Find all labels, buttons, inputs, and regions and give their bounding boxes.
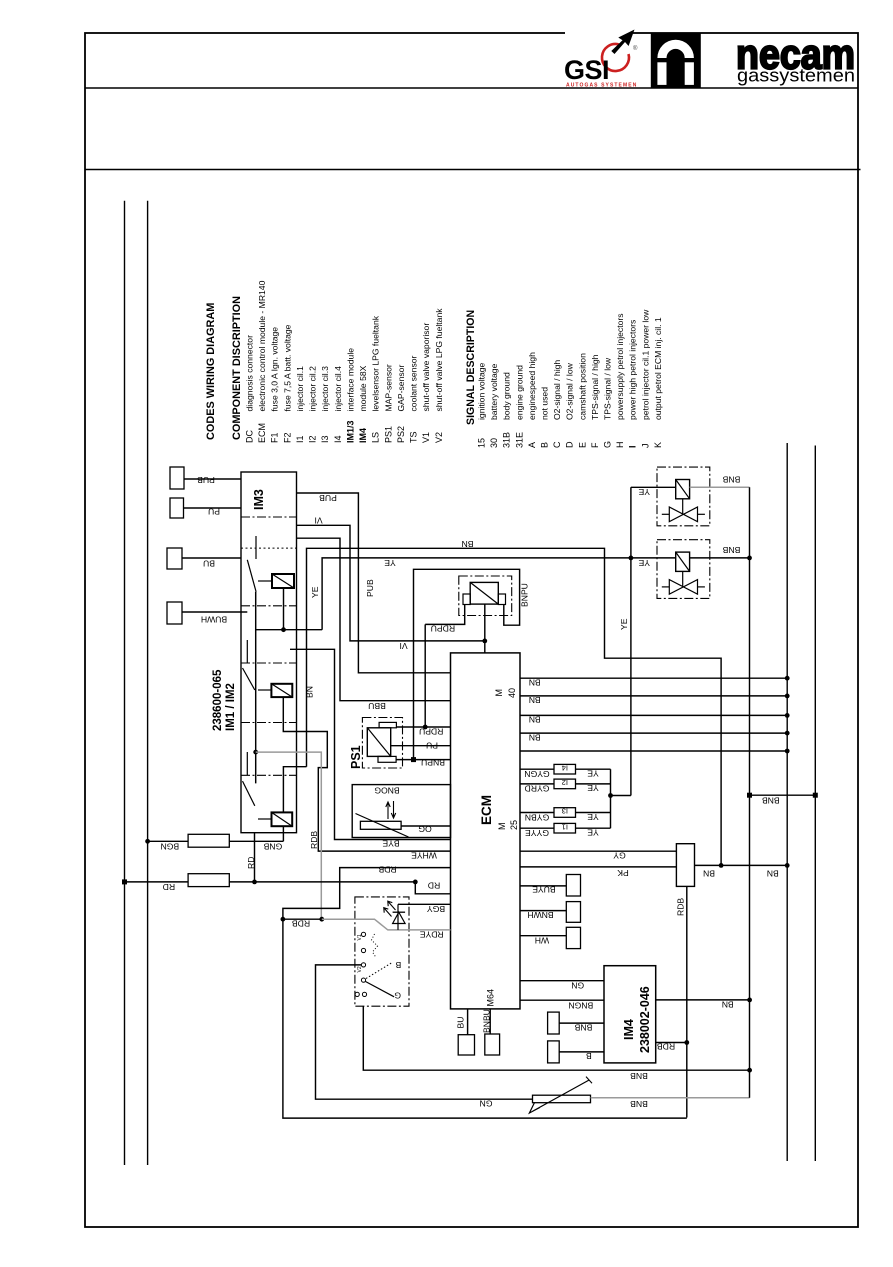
svg-text:BUYE: BUYE [532,885,556,895]
svg-text:TPS-signal / high: TPS-signal / high [590,354,600,420]
svg-text:GYRD: GYRD [525,784,550,794]
wire YE I4 [576,768,611,770]
svg-text:not used: not used [540,387,550,420]
svg-text:C: C [552,441,562,448]
junction RD branch [252,880,257,885]
svg-text:238600-065: 238600-065 [212,669,224,731]
svg-text:M64: M64 [486,989,496,1007]
svg-text:COMPONENT DISCRIPTION: COMPONENT DISCRIPTION [231,296,243,440]
svg-text:31E: 31E [514,432,524,448]
GSI logo black arrow [611,30,634,55]
svg-text:RD: RD [246,857,256,869]
svg-text:I2: I2 [562,778,568,787]
svg-text:MAP-sensor: MAP-sensor [383,364,393,411]
svg-text:module 58X: module 58X [358,365,368,411]
svg-text:VI: VI [399,641,407,651]
junction BN/DC 2 [785,863,790,868]
svg-text:injector cil.3: injector cil.3 [320,366,330,412]
svg-text:interface module: interface module [345,348,355,412]
sensor PS1 dashed box [362,718,402,769]
valve bowtie [669,507,697,522]
wire YE I1 [576,827,611,829]
PS1 top tab [379,722,396,727]
wire RDB IM4 [656,1042,687,1044]
box BNBU [485,1034,500,1055]
svg-text:®: ® [633,45,638,52]
svg-text:petrol injector cil.1 power lo: petrol injector cil.1 power low [640,309,650,420]
wire RDB to switch unit [283,918,322,920]
svg-text:BNPU: BNPU [421,758,445,768]
junction rail/BGN [145,839,150,844]
wire BNB cross to rail [750,794,816,796]
wire BNB V2 [690,557,750,559]
svg-text:RDYE: RDYE [420,930,444,940]
svg-text:PUB: PUB [365,579,375,597]
svg-text:M: M [494,689,504,697]
svg-text:CODES WIRING DIAGRAM: CODES WIRING DIAGRAM [205,303,217,440]
wire BUYE [520,885,566,887]
svg-text:H: H [615,442,625,449]
ECM electronic control module box [451,653,521,1009]
box BU [458,1035,474,1055]
svg-text:I: I [628,445,638,448]
svg-text:DC: DC [245,430,255,443]
injector I1 wire from ECM [520,827,554,829]
svg-text:IM1/3: IM1/3 [345,420,355,443]
level sensor LS body [533,1095,591,1103]
svg-text:GY: GY [613,851,626,861]
wire GY ECM to DC [520,850,676,852]
LS arrow [529,1080,589,1113]
wire YE node horizontal [256,629,322,631]
svg-text:PUB: PUB [319,493,337,503]
svg-text:GN: GN [571,981,584,991]
svg-text:I4: I4 [562,763,568,772]
fuse F2 body [188,874,229,887]
svg-text:BNGN: BNGN [568,1001,593,1011]
svg-text:fuse 3,0 A Ign. voltage: fuse 3,0 A Ign. voltage [270,327,280,412]
junction coil1/YE node [281,627,286,632]
sensor TS box [352,785,450,838]
wire BNBU ECM bottom [489,1009,491,1034]
svg-text:E: E [577,442,587,448]
wire coil3 bottom to fuse wire [282,826,284,841]
svg-text:I4: I4 [333,435,343,443]
valve coil [676,552,690,571]
svg-text:power high petrol injectors: power high petrol injectors [628,320,638,420]
connector box BU [167,548,182,569]
svg-text:shut-off valve vaporisor: shut-off valve vaporisor [421,323,431,412]
junction PS2/VI [482,639,487,644]
svg-text:fuse 7,5 A batt. voltage: fuse 7,5 A batt. voltage [282,324,292,411]
svg-text:25: 25 [509,820,519,830]
svg-text:GYBN: GYBN [525,812,549,822]
svg-text:BNPU: BNPU [520,583,530,607]
left rail 30 battery [124,201,126,1165]
wire BNPU loop around PS2 [414,569,520,759]
svg-text:ECM: ECM [257,423,267,443]
svg-text:SIGNAL DESCRIPTION: SIGNAL DESCRIPTION [465,310,477,425]
junction BNB cross a [747,793,752,798]
svg-text:BNOG: BNOG [374,786,400,796]
svg-text:LS: LS [371,432,381,443]
relay IM2 coil [271,684,292,697]
wire PUB to IM3 [184,478,241,480]
wire grey RDB/RDYE through unit [322,919,451,930]
svg-text:YE: YE [587,812,599,822]
svg-text:ECM: ECM [479,795,494,825]
wire WH [520,935,566,937]
connector box PU [170,498,184,518]
svg-text:BNBU: BNBU [482,1009,492,1033]
svg-text:OG: OG [418,824,432,834]
relay IM1 contact [255,536,257,559]
svg-text:injector cil.2: injector cil.2 [308,366,318,412]
svg-text:B: B [586,1051,592,1061]
svg-text:YE: YE [587,769,599,779]
valve stem [682,499,684,515]
junction RDPU [423,725,428,730]
necam arch logo white half-ring [657,40,694,58]
svg-text:diagnosis connector: diagnosis connector [245,335,255,412]
wire BU ECM bottom [467,1009,469,1035]
svg-text:F: F [590,442,600,448]
junction RD jog [413,880,418,885]
wire RDB from ECM [283,868,451,920]
svg-text:camshaft position: camshaft position [577,353,587,420]
relay IM1 coil [272,574,294,588]
svg-text:enginespeed high: enginespeed high [527,352,537,420]
svg-text:BBU: BBU [368,701,386,711]
wire YE I3 [576,812,611,814]
box BNB [548,1012,560,1034]
junction BN IM4 [747,998,752,1003]
junction RDB b [319,917,324,922]
svg-text:gassystemen: gassystemen [737,65,855,86]
wire PUB from IM3 to ECM [297,493,451,673]
wire B box to IM4 [559,1051,604,1053]
svg-text:RDPU: RDPU [419,727,443,737]
svg-text:PK: PK [617,868,629,878]
fuse F1 BGN wire [148,840,284,842]
wire coil1 bottom to YE node [283,588,285,630]
svg-text:PU: PU [208,507,220,517]
svg-text:A: A [527,442,537,448]
junction BNB bottom [747,1068,752,1073]
svg-text:PS2: PS2 [396,426,406,443]
svg-text:31B: 31B [502,432,512,448]
svg-text:YE: YE [587,783,599,793]
svg-text:YE: YE [619,618,629,630]
wire BNB V1 grey [690,486,750,488]
wire GN ECM to IM4 [520,980,604,982]
wire BNWH [520,910,566,912]
valve dashed box [657,540,710,599]
junction RDB IM4 [684,1040,689,1045]
svg-text:YE: YE [638,487,650,497]
wire RDPU PS1 to ECM [396,726,450,728]
svg-text:BNB: BNB [762,796,780,806]
necam arch logo white legs [657,62,666,85]
wire RDPU vertical from PS2 [424,624,426,727]
wire OG to ECM [401,825,450,827]
svg-text:G: G [603,441,613,448]
PS2 left tab [463,594,470,605]
svg-text:PS1: PS1 [383,426,393,443]
svg-text:BN: BN [529,678,541,688]
module IM4 box [604,966,656,1063]
diagnosis connector DC box [676,844,694,887]
svg-text:GSI: GSI [564,55,609,85]
svg-text:B: B [395,960,401,970]
svg-text:IM4: IM4 [622,1019,636,1040]
svg-text:GYGN: GYGN [524,769,549,779]
svg-text:WH: WH [535,936,549,946]
injector I4 wire from ECM [520,768,554,770]
wire PS2 centre pin to ECM [484,604,486,653]
wire PU to IM3 [184,507,242,509]
connector box PUB [170,467,184,489]
svg-text:O2-signal / low: O2-signal / low [565,362,575,420]
PS1 bottom tab [378,756,396,762]
TS arrows [386,802,390,819]
wire YE I2 [576,783,611,785]
svg-text:M: M [497,823,507,831]
wire BN jog to relay IM3 coil [283,767,306,813]
svg-text:RDB: RDB [676,898,686,916]
svg-text:BN: BN [529,732,541,742]
wire RD branch up into block [254,833,256,882]
svg-text:RDB: RDB [309,831,319,849]
svg-text:D: D [565,441,575,448]
svg-text:V2: V2 [357,966,363,972]
svg-text:BYE: BYE [382,839,399,849]
injector I3 wire from ECM [520,812,554,814]
LED arrows [388,901,396,910]
wire GN switch to LS [316,965,533,1099]
valve coil [676,480,690,499]
IM3 block section dividers [241,516,297,518]
svg-text:injector cil.1: injector cil.1 [295,366,305,412]
sensor PS2 dashed box [459,576,512,616]
TS thermistor diagonal [356,814,409,838]
svg-text:BNB: BNB [574,1023,592,1033]
svg-text:F2: F2 [282,432,292,443]
wire BN 2 ECM to ground rail [520,695,787,697]
wire YE bus to main YE vertical [611,795,631,797]
svg-text:BNB: BNB [722,475,740,485]
svg-text:V1: V1 [357,934,363,940]
svg-text:BN: BN [703,869,715,879]
svg-text:O2-signal / high: O2-signal / high [552,360,562,420]
junction YE v2 [629,556,634,561]
wire BNGN ECM to IM4 [520,999,604,1001]
wire BNB box to IM4 [559,1022,604,1024]
svg-text:15: 15 [477,438,487,448]
valve stem [682,571,684,587]
svg-text:BU: BU [456,1017,466,1029]
wire YE injector bus [610,769,612,828]
svg-text:GAP-sensor: GAP-sensor [396,365,406,412]
relay IM3 coil [272,812,293,826]
svg-text:BGN: BGN [160,842,179,852]
injector I4 box [554,764,576,774]
wire BGY LED to ECM [398,903,451,905]
svg-text:BNWH: BNWH [527,910,553,920]
PS2 right tab [498,594,505,605]
svg-text:powersupply petrol injectors: powersupply petrol injectors [615,313,625,420]
svg-text:RD: RD [428,881,440,891]
wire YE from node to valves [322,558,631,630]
GSI logo white patch over border [565,26,633,44]
svg-text:RDB: RDB [292,919,310,929]
svg-text:coolant sensor: coolant sensor [409,355,419,411]
injector I1 box [554,823,576,833]
svg-text:I1: I1 [562,822,568,831]
junction relay common / grey RDB [253,750,258,755]
wire BN 3 ECM to ground rail [520,714,787,716]
relay IM2 contact [246,640,248,663]
valve side lines [662,586,670,588]
dotted contact arm B [366,962,393,978]
wire BNPU PS1 to ECM [396,759,450,761]
wire VI from IM3 to ECM/PS2 node [297,525,485,641]
svg-text:238002-046: 238002-046 [638,986,652,1053]
wire YE to V1 [631,486,676,488]
wire BN from IM3 to ground rail via top [307,548,722,865]
valve bowtie [669,580,697,595]
connector box BUWH [167,602,182,624]
junction BNB v2 [747,556,752,561]
svg-text:PU: PU [426,741,438,751]
wire coil2 bottom to WHYE [283,697,450,851]
wire RDPU from PS2 tab [425,605,465,625]
wire RD jog into ECM [415,882,450,894]
svg-text:shut-off valve LPG fueltank: shut-off valve LPG fueltank [434,308,444,412]
svg-text:RDPU: RDPU [431,624,455,634]
svg-text:GYYE: GYYE [525,828,549,838]
svg-text:BN: BN [529,715,541,725]
svg-text:AUTOGAS SYSTEMEN: AUTOGAS SYSTEMEN [566,83,637,89]
box BUYE [566,875,580,897]
svg-text:F1: F1 [270,432,280,443]
junction rail/RD square [122,879,127,884]
svg-text:J: J [640,444,650,449]
svg-text:BN: BN [462,539,474,549]
svg-text:I1: I1 [295,435,305,443]
svg-text:BNB: BNB [722,545,740,555]
GSI logo red ring [602,44,629,71]
svg-text:PS1: PS1 [349,745,363,769]
svg-text:RD: RD [163,882,175,892]
wire YE to V2 [631,557,676,559]
wire BNB valves vertical [749,487,751,1098]
injector I3 box [554,808,576,818]
right rail BNB ground [814,446,816,1162]
svg-text:ignition voltage: ignition voltage [477,362,487,420]
wire BNB switch unit bottom [363,1006,749,1070]
svg-text:IM3: IM3 [252,489,266,510]
PS2 coil [470,582,498,604]
wire BYE from IM3 to ECM [290,649,451,839]
svg-text:levelsensor LPG fueltank: levelsensor LPG fueltank [371,315,381,411]
box WH [566,927,580,948]
svg-text:K: K [653,442,663,448]
svg-text:V1: V1 [421,432,431,443]
svg-text:GN: GN [480,1099,493,1109]
wire PK ECM to DC [520,866,676,868]
svg-text:RDB: RDB [657,1042,675,1052]
injector I2 wire from ECM [520,783,554,785]
svg-text:YE: YE [310,586,320,598]
wire relay common vertical [255,592,257,784]
wire RDB bottom run [283,919,687,1118]
interface module IM1/IM2/IM3 block outline [241,472,297,833]
valve side lines [662,513,670,515]
wire YE main vertical [630,487,632,795]
svg-text:IM1 / IM2: IM1 / IM2 [225,683,237,731]
injector I2 box [554,779,576,789]
svg-text:engine ground: engine ground [514,365,524,420]
wire grey RDB from relay common to switch unit [256,752,322,919]
svg-text:I3: I3 [320,435,330,443]
necam arch logo black block [651,33,701,88]
svg-text:YE: YE [587,828,599,838]
svg-text:BN: BN [722,1000,734,1010]
right rail BN ground [786,443,788,1161]
svg-text:V2: V2 [434,432,444,443]
TS thermistor body [360,821,401,829]
header divider line 1 [85,87,858,89]
switch contacts [361,932,365,936]
svg-text:BN: BN [767,869,779,879]
valve dashed box [657,467,710,526]
wire BBU from IM3 to ECM [297,538,451,701]
header divider line 2 [85,169,861,171]
switch unit dashed box [355,897,409,1006]
svg-text:electronic control module - MR: electronic control module - MR140 [257,280,267,411]
svg-text:BN: BN [529,695,541,705]
svg-text:GNB: GNB [263,842,282,852]
wire BN 4 ECM to ground rail [520,732,787,734]
svg-text:IM4: IM4 [358,428,368,443]
dotted link [372,934,378,958]
svg-text:BN: BN [305,686,315,698]
svg-text:TPS-signal / low: TPS-signal / low [603,357,613,420]
wire RDB from DC down [686,886,688,1117]
svg-text:injector cil.4: injector cil.4 [333,366,343,412]
svg-text:RDB: RDB [378,865,396,875]
svg-text:TS: TS [409,431,419,443]
wire BU to IM3 [182,557,241,559]
svg-text:I3: I3 [562,807,568,816]
box BNWH [566,902,580,923]
svg-text:B: B [540,442,550,448]
svg-text:BU: BU [203,559,215,569]
wire BN 5 ECM to ground rail [520,750,787,752]
svg-text:body ground: body ground [502,372,512,420]
svg-text:WHYE: WHYE [411,851,437,861]
LED symbol [393,911,406,913]
relay IM3 contact [246,752,248,775]
wire BN 1 ECM to ground rail [520,677,787,679]
fuse F1 body [188,834,229,847]
wire BUWH into IM3 [182,611,247,613]
junction BNB cross b [813,793,818,798]
svg-text:BNB: BNB [630,1099,648,1109]
junction BNPU square [411,757,416,762]
left rail 15 ignition [147,201,149,1165]
